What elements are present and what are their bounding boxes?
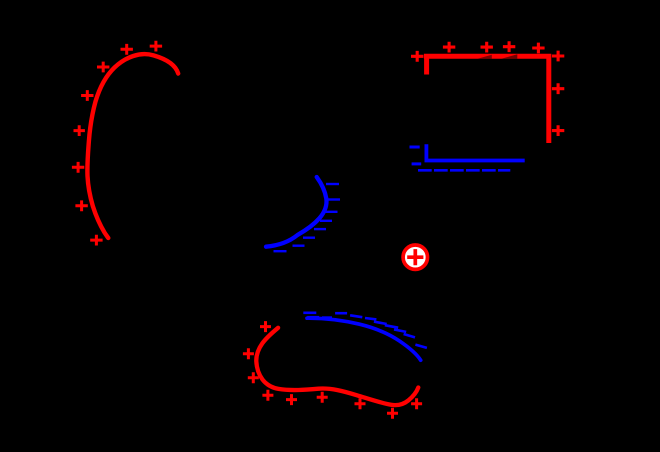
plus F1 [260, 321, 271, 332]
minus F9 [415, 345, 427, 348]
plus F7 [355, 398, 366, 409]
plus A6 [72, 162, 84, 173]
minus B5 [314, 228, 326, 230]
plus A5 [74, 125, 85, 136]
plus F6 [317, 392, 328, 403]
plus A8 [90, 235, 102, 246]
plus A2 [150, 41, 162, 52]
conductor F: bottom blob, red positive side [256, 328, 418, 405]
minus B7 [293, 244, 305, 246]
plus F5 [286, 394, 297, 405]
plus C1 [411, 51, 423, 62]
minus F3 [350, 315, 362, 317]
plus A1 [121, 44, 133, 55]
plate C left stub [424, 56, 429, 74]
plus F8 [387, 408, 398, 419]
conductor B: center blue crescent arc [266, 177, 327, 247]
plus C6 [552, 51, 564, 62]
plate C top+right bars [424, 56, 549, 143]
minus F6 [385, 325, 398, 328]
point charge E: circled plus [403, 245, 427, 269]
minus B8 [274, 250, 287, 252]
minus at crescent tip [265, 245, 276, 247]
minus D-left-bottom [412, 162, 422, 165]
plus C2 [443, 42, 455, 53]
minus F8 [404, 334, 415, 337]
plus C5 [532, 43, 544, 54]
minus F7 [394, 330, 406, 332]
plus C8 [552, 125, 564, 136]
minus B2 [328, 198, 340, 200]
charge E circle [403, 245, 427, 269]
plus F4 [262, 390, 273, 401]
minus F5 [374, 322, 387, 324]
conductor A: left red open curve [87, 54, 178, 238]
minus F4 [365, 318, 376, 319]
minus B6 [303, 236, 315, 238]
plus marks around conductor A [72, 41, 162, 246]
minus marks outside crescent [274, 184, 341, 251]
minus F-edge1 [307, 316, 319, 319]
minus B1 [326, 183, 339, 185]
conductor C: top-right red plate (staple shape) [424, 56, 549, 143]
shading notch 1 on plate C top bar [478, 55, 492, 59]
minus D-left-top [410, 146, 420, 149]
charge E plus [407, 249, 423, 265]
plus C4 [503, 41, 515, 52]
plus marks on plate C [411, 41, 564, 136]
plus C7 [552, 83, 564, 94]
shading notch 2 on plate C top bar [501, 54, 517, 59]
plus F9 [411, 398, 422, 409]
plus A3 [97, 62, 109, 73]
minus F-edge2 [322, 316, 332, 319]
minus marks above blob arc [303, 313, 427, 348]
plus C3 [481, 42, 493, 53]
plus marks around blob [243, 321, 422, 419]
minus F2 [335, 312, 347, 315]
plus A7 [75, 200, 87, 211]
minus row under plate D [418, 169, 510, 172]
plus F2 [243, 348, 254, 359]
plus F3 [248, 372, 259, 383]
minus B3 [326, 211, 338, 213]
minus B4 [320, 220, 332, 222]
conductor D: blue bottom plate [426, 144, 524, 160]
conductor F: bottom blob, blue induced side [307, 318, 421, 360]
minus F1 [303, 311, 316, 314]
plus A4 [81, 90, 93, 101]
